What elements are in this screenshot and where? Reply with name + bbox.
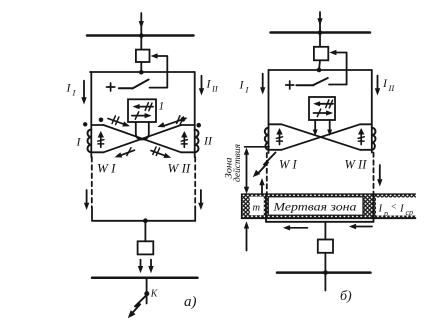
relay stem left with arrowhead b [314,120,316,130]
wire to bottom breaker a [144,221,146,242]
white cell for Ip<Icp [376,198,416,216]
current arrow I_II b [377,76,379,91]
circuit breaker Q1 box a [136,50,150,62]
svg-text:W II: W II [345,158,368,172]
fault node K dot [144,291,149,296]
wire breaker to bottom bus b [324,253,326,273]
dead zone hatched band [242,194,417,218]
left line conductor a (solid) [90,72,92,157]
band bottom edge [242,217,416,219]
CT coil I bumps a [88,130,92,153]
busbar bottom a [92,277,198,280]
busbar top b [271,31,371,34]
slash mark on relay bottom arrow a [135,112,138,119]
current arrow lower-left diagonal a [120,150,135,156]
down arrow beside right dashed b [379,165,381,181]
node dot top of loop a [139,70,144,75]
svg-text:1: 1 [159,101,165,113]
flow arrow left (outer) b [354,226,373,228]
source feeder wire top a [140,13,142,36]
svg-text:ср: ср [406,208,414,217]
bowtie diagonal wire W II to I a [104,125,182,152]
source current arrowhead a [139,21,144,28]
relay winding arrow top (left) b [316,103,333,105]
svg-text:m: m [253,203,261,214]
breaker Q2 box a [138,241,154,254]
hash marks upper-left a [112,116,119,125]
source current arrowhead b [317,18,322,25]
polarity dot inner I a [99,118,104,123]
loop top conductor b [269,69,372,71]
svg-text:б): б) [340,289,352,304]
left conductor dashed segment b [266,153,268,194]
relay box 1 a [128,99,156,122]
contact blade a [132,80,148,89]
wire below bottom bus a [146,278,148,304]
connection wire below band b [266,221,374,223]
wire breaker to loop a [140,62,142,72]
svg-text:II: II [211,84,219,94]
slash mark lower-left a [127,148,131,156]
CT coil II bumps a [195,130,199,153]
trip wire arrowhead into breaker a [151,53,158,58]
right corner solid a [194,208,196,221]
relay winding arrow top (left) a [135,106,153,108]
bowtie diagonal wire b (I to II) [282,124,361,150]
winding body stubs b [269,124,372,150]
relay box b [309,97,335,120]
flux arrow in winding I b [279,130,281,145]
hash marks lower-right a [153,147,160,155]
zone lower arrow below band b [246,227,248,251]
flow arrow left (inner) b [288,227,308,229]
left corner solid a [91,208,93,221]
svg-text:а): а) [184,294,197,310]
current arrow upper-right diagonal a [163,118,187,126]
contact lead wire b [296,84,313,86]
polarity dot inner II a [181,117,186,122]
flux arrow in winding II b [360,130,362,145]
flow arrow left dashed a [86,190,88,205]
hash marks on relay top arrow a [145,103,152,111]
contact blade b [314,78,328,85]
hash marks on relay top arrow b [326,100,333,108]
fault lightning arrow a [131,295,147,315]
busbar A top a [87,34,194,37]
svg-text:II: II [388,83,396,93]
bowtie diagonal wire b (II to I) [282,124,361,150]
wire breaker to loop b [319,60,320,70]
svg-text:К: К [150,289,159,300]
flux arrow in winding II a [183,133,185,147]
svg-text:W I: W I [279,158,298,172]
svg-text:II: II [203,134,213,148]
breaker box bottom b [318,240,333,253]
junction node bottom bus b [323,270,328,275]
current arrow I_I b [262,74,264,89]
right conductor dashed segment a [194,157,196,208]
left conductor crossing band b [265,194,267,222]
white cell for m [250,197,264,216]
flow arrow pair below breaker a (left) [140,260,142,268]
flow arrow right dashed a [200,190,202,205]
relay winding arrow bottom (right) a [132,115,149,117]
wire bus to breaker b [319,33,321,47]
junction node on top bus a [139,33,144,38]
wire band to breaker b [324,222,326,240]
relay winding arrow bottom (right) b [314,112,331,114]
svg-text:Мертвая зона: Мертвая зона [272,202,356,214]
relay stem to crossing a [136,122,149,140]
winding body stubs a [91,125,194,152]
flux arrow in winding I a [100,133,102,147]
left line conductor b (solid) [268,70,270,153]
polarity dot outer II a [196,123,201,128]
svg-text:действия: действия [232,144,242,182]
slash mark on relay bottom arrow b [317,109,320,116]
svg-text:W I: W I [97,161,116,176]
right line conductor a (solid) [194,72,196,157]
svg-text:р: р [383,209,388,218]
trip wire arrowhead into breaker b [329,50,336,55]
polarity dot outer I a [83,122,87,126]
node dot top of loop b [317,68,322,73]
right conductor crossing band b [373,194,375,222]
CT coil II bumps b [372,128,376,150]
right conductor dashed segment b [373,153,375,195]
current arrow upper-left diagonal a [108,119,125,125]
zone top tick wire b [245,146,270,148]
relay stem right with arrowhead b [329,120,331,130]
contact lead wire a [119,87,132,89]
circuit breaker box b [314,47,328,61]
right line conductor b (solid) [371,70,373,153]
up arrow beside left dashed b [261,184,263,195]
plus polarity symbol a [107,83,115,91]
wire bus to breaker a [140,36,142,50]
hash marks upper-right a [177,116,184,125]
loop bottom conductor a [92,220,195,222]
junction node bottom a [143,218,148,223]
flow arrow pair below breaker a (right) [150,260,152,268]
protection zone extent arrow b [246,152,248,191]
svg-text:<: < [391,203,397,213]
internal fault lightning arrow b [257,153,276,175]
dead zone label box [268,197,363,215]
current arrow I_I a [83,81,85,99]
loop top conductor a [90,71,195,73]
left conductor dashed segment a [91,157,93,208]
junction node on top bus b [318,30,323,35]
trip circuit wire b [329,53,347,85]
busbar bottom b [277,271,371,274]
bowtie diagonal wire W I to II a [104,125,182,152]
feeder stub below bus b [324,273,326,291]
current arrow I_II a [201,76,203,90]
plus polarity symbol b [286,81,294,89]
current arrow lower-right diagonal a [151,151,167,157]
trip circuit wire a [150,56,168,88]
CT coil I bumps b [265,128,269,150]
svg-text:W II: W II [168,161,191,176]
source feeder wire top b [319,12,321,33]
